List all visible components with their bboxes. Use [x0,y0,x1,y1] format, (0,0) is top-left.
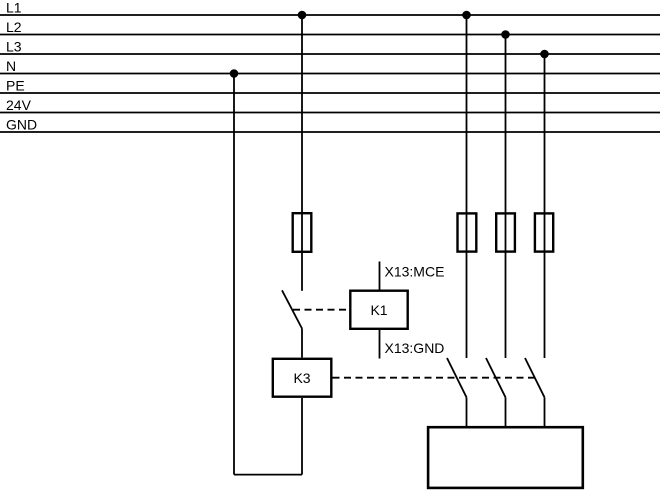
svg-text:X13:MCE: X13:MCE [385,264,445,280]
contact K3.3 blade [525,358,545,397]
wire L2 drop to fuse F3 [505,35,507,213]
bus wire L1 [0,14,660,16]
junction dot on L1 at x=302 [298,11,307,20]
fuse F2 body [458,213,477,251]
wire contact K1 to coil K3 [301,329,303,358]
bus wire 24V [0,112,660,114]
wire stub K1 to X13:GND [379,330,381,359]
wire L3 drop to fuse F4 [544,54,546,212]
bus wire N [0,73,660,75]
svg-text:L2: L2 [6,19,22,35]
svg-text:K3: K3 [293,370,310,386]
svg-text:K1: K1 [370,302,387,318]
contactor coil K3 [273,359,332,397]
bus wire L2 [0,34,660,36]
relay coil K1 [350,291,407,329]
dashed link contact to K1 [293,309,349,311]
junction dot on L3 at x=544.5 [540,50,549,59]
svg-text:24V: 24V [6,97,32,113]
fuse F1 element wire [301,212,303,253]
junction dot on L2 at x=505.5 [501,30,510,39]
bus wire PE [0,92,660,94]
wire contact K3.2 to motor [505,397,507,426]
wire N drop (x=234) [233,74,235,475]
svg-text:L3: L3 [6,39,22,55]
fuse F1 body [293,213,312,252]
dashed link K3 to motor contacts [333,377,536,379]
wire stub X13:MCE to K1 [379,262,381,290]
wire contact K3.1 to motor [466,397,468,426]
svg-text:L1: L1 [6,0,22,16]
wire contact K3.3 to motor [544,397,546,426]
svg-text:N: N [6,58,16,74]
contact K3.2 blade [486,358,506,397]
fuse F4 body [535,213,553,251]
wire K3 bottom to return [301,398,303,475]
motor load box [428,427,583,488]
junction dot on N at x=234 [230,69,239,78]
bus wire GND [0,131,660,133]
junction dot on L1 at x=466.5 [462,11,471,20]
svg-text:X13:GND: X13:GND [385,340,445,356]
fuse F4 element wire [544,212,546,253]
fuse F2 element wire [466,212,468,253]
fuse F3 body [496,213,515,251]
svg-text:GND: GND [6,117,37,133]
contact K3.1 blade [447,358,467,397]
wire fuse F4 to contact K3.3 [544,253,546,358]
contact K1 blade [282,290,302,328]
wire bottom return [234,474,302,476]
wire fuse F1 to contact K1 [301,253,303,291]
fuse F3 element wire [505,212,507,253]
wire fuse F2 to contact K3.1 [466,253,468,358]
svg-text:PE: PE [6,78,25,94]
wire fuse F3 to contact K3.2 [505,253,507,358]
wire L1 drop to fuse F1 [301,15,303,212]
wire L1 drop to fuse F2 [466,15,468,212]
bus wire L3 [0,53,660,55]
